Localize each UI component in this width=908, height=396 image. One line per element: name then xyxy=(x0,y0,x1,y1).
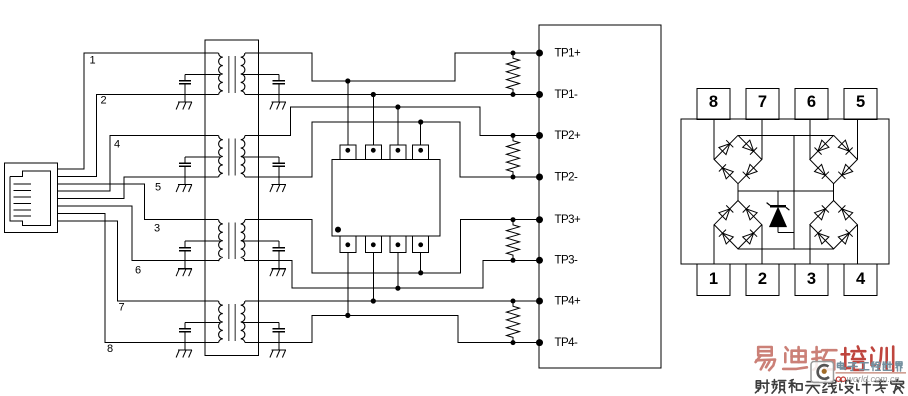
svg-text:TP4-: TP4- xyxy=(555,337,578,349)
svg-text:TP3-: TP3- xyxy=(555,255,578,267)
svg-text:5: 5 xyxy=(155,182,161,194)
svg-text:5: 5 xyxy=(856,93,865,111)
svg-text:3: 3 xyxy=(807,270,816,288)
svg-text:TP2+: TP2+ xyxy=(555,130,581,142)
svg-text:2: 2 xyxy=(101,95,107,107)
svg-text:TP4+: TP4+ xyxy=(555,295,581,307)
svg-text:6: 6 xyxy=(807,93,816,111)
svg-text:TP1-: TP1- xyxy=(555,89,578,101)
svg-text:7: 7 xyxy=(119,302,125,314)
svg-text:7: 7 xyxy=(758,93,767,111)
svg-text:2: 2 xyxy=(758,270,767,288)
svg-text:4: 4 xyxy=(856,270,866,288)
svg-text:3: 3 xyxy=(154,223,160,235)
svg-text:1: 1 xyxy=(90,55,96,67)
svg-text:6: 6 xyxy=(135,265,141,277)
svg-text:4: 4 xyxy=(114,139,120,151)
svg-text:1: 1 xyxy=(709,270,718,288)
svg-text:TP1+: TP1+ xyxy=(555,47,581,59)
svg-text:8: 8 xyxy=(107,343,113,355)
svg-text:TP3+: TP3+ xyxy=(555,214,581,226)
svg-text:TP2-: TP2- xyxy=(555,171,578,183)
svg-text:world.com.cn: world.com.cn xyxy=(847,374,900,384)
svg-text:8: 8 xyxy=(709,93,718,111)
